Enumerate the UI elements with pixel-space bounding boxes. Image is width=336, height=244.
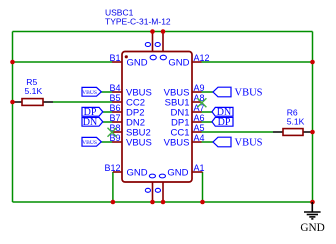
junction at left B1 <box>10 60 15 65</box>
wire B9 <box>101 141 112 143</box>
pin B6 <box>112 111 122 113</box>
pin shell bottom 1 <box>152 182 154 202</box>
svg-text:A9: A9 <box>194 83 205 93</box>
junction top shell 1 <box>150 29 155 34</box>
svg-text:5.1K: 5.1K <box>25 86 43 96</box>
wire right bus <box>312 32 314 203</box>
svg-text:B4: B4 <box>109 83 120 93</box>
svg-text:A12: A12 <box>194 53 210 63</box>
pin shell top 2 <box>162 32 164 52</box>
net flag DP at A6 <box>212 117 233 128</box>
pin B12 <box>113 171 122 173</box>
svg-text:5.1K: 5.1K <box>287 117 305 127</box>
svg-text:VBUS: VBUS <box>164 137 190 148</box>
pin shell bottom 2 <box>162 182 164 202</box>
svg-text:GND: GND <box>127 57 148 68</box>
wire A5 <box>202 131 274 133</box>
pin decoration ellipse top inside 1 <box>150 55 156 60</box>
junction bottom shell 1 <box>150 200 155 205</box>
svg-text:VBUS: VBUS <box>126 137 152 148</box>
pin A7 <box>192 111 202 113</box>
junction bottom right GND <box>310 200 315 205</box>
wire A1 <box>202 172 204 202</box>
pin A12 <box>192 61 202 63</box>
pin B4 <box>112 91 122 93</box>
pin decoration ellipse bottom outside 1 <box>145 188 150 192</box>
no-connect X at B8 <box>108 128 117 137</box>
net flag DN at A7 <box>212 107 233 118</box>
wire B6 <box>103 111 112 113</box>
pin decoration ellipse bottom inside 2 <box>159 174 165 178</box>
resistor R5 leads <box>13 101 23 103</box>
svg-text:A6: A6 <box>194 113 205 123</box>
pin A4 <box>192 141 202 143</box>
wire A6 <box>202 121 213 123</box>
pin A6 <box>192 121 202 123</box>
resistor R6 body <box>283 129 303 136</box>
pin decoration ellipse top outside 2 <box>155 43 160 47</box>
pin A1 <box>192 171 203 173</box>
wire B1 <box>13 61 113 63</box>
wire A9 <box>202 91 214 93</box>
wire A12 <box>202 61 313 63</box>
svg-text:B6: B6 <box>109 103 120 113</box>
svg-text:A1: A1 <box>194 163 205 173</box>
svg-text:B1: B1 <box>109 53 120 63</box>
wire B12 <box>112 172 114 202</box>
junction right A12 <box>310 60 315 65</box>
svg-text:A4: A4 <box>194 133 205 143</box>
no-connect X at A8 <box>197 98 206 107</box>
junction bottom shell 2 <box>161 200 166 205</box>
junction right R6 <box>310 130 315 135</box>
svg-text:GND: GND <box>167 167 188 178</box>
svg-text:VBUS: VBUS <box>82 90 97 96</box>
pin A9 <box>192 91 202 93</box>
resistor R6 leads <box>273 131 283 133</box>
wire left bus <box>12 32 14 203</box>
svg-text:GND: GND <box>127 167 148 178</box>
svg-text:VBUS: VBUS <box>82 140 97 146</box>
wire top bus <box>13 31 313 33</box>
wire bottom bus <box>13 201 313 203</box>
pin decoration ellipse top outside 1 <box>145 43 150 47</box>
wire A4 <box>202 141 214 143</box>
net flag DP at B6 <box>82 107 103 118</box>
op usbc1 body <box>122 52 192 183</box>
svg-text:B5: B5 <box>109 93 120 103</box>
wire B5 <box>53 101 112 103</box>
svg-text:VBUS: VBUS <box>235 138 263 149</box>
wire A7 <box>202 111 213 113</box>
wire B4 <box>101 91 112 93</box>
pin B9 <box>112 141 122 143</box>
pin A8 <box>192 101 202 103</box>
wire B7 <box>103 121 112 123</box>
net flag DN at B7 <box>82 117 103 128</box>
svg-text:B12: B12 <box>104 163 120 173</box>
pin B7 <box>112 121 122 123</box>
net flag VBUS at A9 <box>213 87 263 98</box>
svg-text:TYPE-C-31-M-12: TYPE-C-31-M-12 <box>105 16 171 26</box>
pin 1 marker dot <box>125 55 128 58</box>
pin B5 <box>112 101 122 103</box>
pin A5 <box>192 131 202 133</box>
pin decoration ellipse bottom inside 1 <box>149 174 155 178</box>
svg-text:B7: B7 <box>109 113 120 123</box>
ground symbol <box>304 202 321 219</box>
junction top shell 2 <box>161 29 166 34</box>
pin decoration ellipse bottom outside 2 <box>155 188 160 192</box>
pin B1 <box>112 61 122 63</box>
resistor R5 body <box>22 99 43 106</box>
svg-text:DN: DN <box>83 117 97 128</box>
pin shell top 1 <box>152 32 154 52</box>
junction bottom A1 <box>200 200 205 205</box>
pin B8 <box>112 131 122 133</box>
junction bottom B12 <box>111 200 116 205</box>
net flag VBUS at B4 <box>82 87 101 96</box>
junction at left R5 <box>10 100 15 105</box>
svg-text:A5: A5 <box>194 123 205 133</box>
svg-text:GND: GND <box>168 57 189 68</box>
net flag VBUS at A4 <box>213 137 263 148</box>
svg-text:VBUS: VBUS <box>235 88 263 99</box>
pin decoration ellipse top inside 2 <box>160 55 166 60</box>
svg-text:DP: DP <box>218 117 231 128</box>
net flag VBUS at B9 <box>82 137 101 146</box>
svg-text:GND: GND <box>300 222 324 234</box>
